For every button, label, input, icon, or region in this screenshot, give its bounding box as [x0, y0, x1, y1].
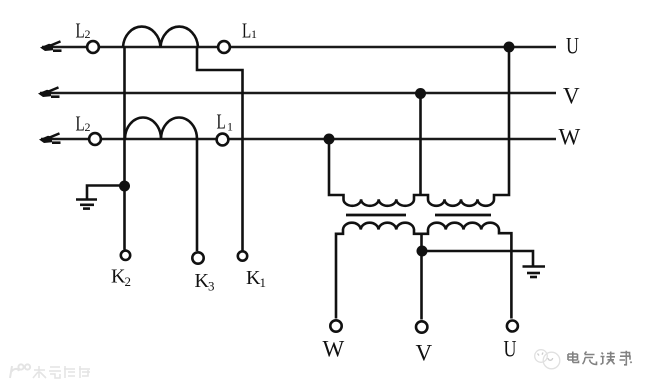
terminal circle L1 of CT TA1 — [218, 41, 230, 53]
label L2 (CT TA2) — [76, 112, 91, 135]
terminal circle L1 of CT TA2 — [217, 134, 229, 146]
label L1 (CT TA1) — [242, 19, 257, 42]
svg-text:1: 1 — [251, 27, 257, 41]
ground symbol at CT common — [76, 200, 97, 209]
svg-text:W: W — [323, 337, 345, 362]
arrow on line U — [40, 40, 62, 52]
VT core bar left — [346, 214, 406, 217]
terminal U of VT secondary — [507, 321, 518, 332]
svg-text:1: 1 — [227, 120, 233, 134]
svg-text:V: V — [563, 84, 580, 109]
svg-text:L: L — [217, 110, 226, 133]
terminal W of VT secondary — [330, 320, 341, 331]
label K3 — [195, 270, 215, 294]
terminal K3 — [192, 252, 203, 263]
arrow on line V — [38, 86, 60, 98]
wire: phase line U — [42, 46, 556, 49]
wire: VT primary middle lead from line V — [419, 94, 422, 196]
wire: phase line W — [41, 138, 556, 141]
label L1 (CT TA2) — [217, 110, 234, 133]
svg-text:L: L — [76, 112, 85, 135]
terminal circle L2 of CT TA2 — [89, 133, 101, 145]
wire: VT secondary middle lead down to terminal V — [420, 234, 423, 320]
label L2 (CT TA1) — [76, 19, 91, 42]
terminal K1 — [238, 251, 247, 260]
watermark text (bottom left, faint) — [33, 366, 90, 378]
svg-text:3: 3 — [208, 279, 215, 294]
wire: phase line V — [40, 92, 556, 95]
arrow on line W — [39, 132, 61, 144]
svg-text:W: W — [559, 125, 581, 150]
ground symbol at VT neutral — [523, 267, 546, 278]
terminal circle L2 of CT TA1 — [87, 41, 99, 53]
label K2 — [111, 266, 131, 290]
label K1 — [246, 267, 266, 290]
terminal K2 — [121, 251, 130, 260]
watermark text: dianqi dushu (bottom right) — [568, 351, 632, 365]
svg-text:2: 2 — [85, 120, 91, 134]
junction node: VT secondary neutral — [417, 246, 428, 257]
wire: ground branch from CT common — [87, 186, 125, 200]
svg-text:2: 2 — [85, 27, 91, 41]
wire: VT neutral to ground — [422, 251, 533, 266]
svg-text:U: U — [504, 338, 517, 363]
terminal V of VT secondary — [416, 321, 427, 332]
svg-text:L: L — [242, 19, 251, 42]
svg-text:L: L — [76, 19, 85, 42]
CT TA1 secondary winding (on line U) — [123, 27, 198, 47]
label U (phase line) — [566, 35, 579, 60]
watermark logo (bottom left, faint) — [10, 364, 30, 378]
svg-text:2: 2 — [125, 274, 132, 289]
CT TA2 secondary winding (on line W) — [125, 117, 197, 139]
svg-text:V: V — [416, 341, 433, 366]
label U (VT secondary) — [504, 338, 517, 363]
wire: CT TA2 right tail down to K3 — [196, 139, 199, 251]
VT secondary winding with leads to terminals — [336, 223, 511, 319]
watermark logo (bottom right) — [535, 350, 560, 369]
junction node: CT secondary common point — [119, 181, 130, 192]
wire: CT TA1 left tail down to K2 — [123, 47, 126, 250]
junction node on line W (VT tap) — [324, 134, 335, 145]
wire: CT TA1 right tail jog down to K1 — [197, 47, 243, 251]
svg-text:U: U — [566, 35, 579, 60]
junction node on line V (VT tap) — [415, 88, 426, 99]
VT TV primary winding with leads from phase taps — [329, 47, 509, 206]
junction node on line U (VT tap) — [504, 42, 515, 53]
VT core bar right — [435, 214, 491, 217]
svg-text:1: 1 — [260, 275, 267, 290]
